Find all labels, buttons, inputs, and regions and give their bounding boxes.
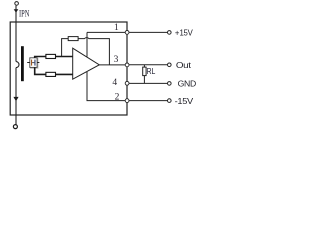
wire: hall top lead to R1 (thick) [35, 57, 46, 59]
wire: pin 1 line [87, 31, 125, 33]
wire: R1 to op-amp inverting input (thick) [56, 56, 73, 58]
svg-text:4: 4 [112, 78, 117, 88]
wire: +15V supply drop to op-amp [86, 32, 88, 56]
wire: feedback tap down to inverting input [62, 39, 69, 57]
pin node 3 [125, 63, 129, 67]
module outer box [10, 22, 127, 115]
wire: op-amp output to pin 3 [99, 64, 125, 66]
pin node 1 [125, 31, 129, 35]
svg-text:Out: Out [176, 60, 192, 70]
svg-text:2: 2 [115, 93, 120, 103]
wire: feedback right with hop over supply [78, 38, 109, 65]
terminal -15V [168, 99, 172, 103]
wire: -15V supply drop and pin 2 line [87, 72, 125, 101]
terminal GND [168, 82, 172, 86]
wire: pin2 to -15V terminal [129, 100, 167, 102]
terminal: primary input (top-left, IPN) [15, 2, 19, 6]
resistor R (top) [46, 54, 56, 58]
hall stub right [37, 62, 39, 64]
resistor RL [143, 67, 146, 76]
wire: pin4 to GND terminal [129, 82, 167, 84]
resistor feedback [68, 37, 78, 41]
hall element H box [31, 59, 38, 69]
wire: pin1 to +15V terminal [129, 31, 167, 33]
pin node 4 [125, 81, 129, 85]
wire: primary hop arc over core region [16, 62, 19, 68]
arrow: primary current direction (upper) [14, 9, 19, 13]
magnetic core bar [21, 46, 24, 81]
resistor RL stub bottom [143, 76, 145, 84]
op-amp U1 [73, 48, 100, 79]
svg-text:+ 15V: + 15V [175, 27, 193, 37]
wire: primary conductor lower [15, 68, 17, 125]
svg-text:-15V: -15V [175, 96, 194, 106]
terminal: primary return (bottom-left) [13, 125, 17, 129]
svg-text:IPN: IPN [19, 9, 30, 19]
wire: R2 to op-amp non-inverting input (thick) [56, 73, 73, 75]
terminal Out [168, 63, 172, 67]
arrow: primary current direction (lower) [13, 97, 18, 101]
terminal +15V [168, 31, 172, 35]
resistor RL stub top [143, 65, 145, 67]
svg-text:RL: RL [147, 67, 156, 76]
svg-text:1: 1 [114, 23, 119, 33]
svg-text:3: 3 [114, 55, 119, 65]
wire: pin3 to Out terminal [129, 64, 167, 66]
resistor R (bottom) [46, 72, 56, 76]
pin node 2 [125, 99, 129, 103]
svg-text:GND: GND [178, 79, 196, 89]
H glyph (drawn) [31, 60, 32, 66]
wire: hall bottom lead to R2 (thick) [35, 67, 46, 74]
hall stub left [27, 62, 30, 64]
wire: primary conductor vertical [15, 6, 17, 62]
